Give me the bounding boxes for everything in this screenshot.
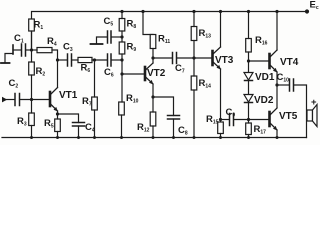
resistor R17 xyxy=(246,123,266,136)
wire R10 leads xyxy=(121,74,123,102)
wire R11 to collector node xyxy=(152,49,154,59)
svg-text:VT4: VT4 xyxy=(280,57,299,68)
wire C2 to node B to VT1 base xyxy=(20,99,50,101)
capacitor C9 xyxy=(226,107,236,126)
svg-text:VT1: VT1 xyxy=(59,90,78,101)
wire VD1 to VD2 xyxy=(248,81,250,95)
wire base branch to VT4 xyxy=(249,60,270,62)
svg-text:R13: R13 xyxy=(199,28,212,40)
svg-text:+: + xyxy=(311,97,317,108)
node R7 junction xyxy=(93,58,96,61)
svg-text:R4: R4 xyxy=(47,36,57,48)
node VT4 base junction xyxy=(247,59,250,62)
transistor VT3 xyxy=(213,47,234,70)
wire arrow to C2 xyxy=(6,99,15,101)
wire node A to R2 to node B xyxy=(31,50,33,62)
transistor VT2 xyxy=(145,63,166,85)
resistor R15 xyxy=(206,114,223,134)
svg-text:R12: R12 xyxy=(137,122,150,134)
svg-text:C9: C9 xyxy=(226,107,236,119)
capacitor C1 xyxy=(14,33,26,56)
resistor R9 xyxy=(119,42,136,55)
wire R9 to row C xyxy=(121,54,123,74)
svg-text:VT2: VT2 xyxy=(147,68,166,79)
wire C5 to ground xyxy=(112,36,123,38)
node input arrow row2 xyxy=(2,97,7,103)
svg-text:VD1: VD1 xyxy=(255,72,275,83)
wire VT4 collector to rail xyxy=(276,12,278,51)
svg-text:R5: R5 xyxy=(44,118,54,130)
svg-text:R11: R11 xyxy=(158,34,170,46)
resistor R5 xyxy=(44,118,60,132)
node output junction xyxy=(275,83,278,86)
node rail R13 xyxy=(192,10,195,13)
svg-text:Ec: Ec xyxy=(310,0,319,11)
wire R1 leads xyxy=(31,31,33,50)
capacitor C10 xyxy=(277,72,294,91)
resistor R12 xyxy=(137,112,156,134)
svg-text:R14: R14 xyxy=(199,78,212,90)
wire rail to R16 xyxy=(248,12,250,39)
node rail R8 xyxy=(120,10,123,13)
speaker BL xyxy=(307,97,317,127)
resistor R6 xyxy=(78,57,92,74)
wire VT3 collector to rail xyxy=(220,12,222,48)
resistor R2 xyxy=(29,62,46,78)
wire bottom ground rail xyxy=(2,137,307,139)
capacitor C2 xyxy=(9,78,20,106)
node VT5 base junction xyxy=(247,118,250,121)
wire base node to VT5 xyxy=(249,119,270,121)
transistor VT4 xyxy=(270,50,299,73)
resistor R7 xyxy=(82,96,97,110)
wire VT1 emitter down xyxy=(57,111,59,114)
wire VT2 collector up xyxy=(152,58,154,63)
svg-text:C8: C8 xyxy=(178,125,188,137)
wire R16 to VT4 base node xyxy=(248,52,250,73)
svg-text:R7: R7 xyxy=(82,96,92,108)
wire R7 leads xyxy=(94,60,96,97)
wire top supply rail xyxy=(32,12,308,51)
node VT3 base junction xyxy=(192,56,195,59)
wire C3 to R6 xyxy=(72,59,78,61)
resistor R10 xyxy=(119,93,139,115)
svg-text:C10: C10 xyxy=(277,72,290,84)
svg-text:C2: C2 xyxy=(9,78,19,90)
svg-text:C6: C6 xyxy=(104,67,114,79)
svg-text:R9: R9 xyxy=(127,42,137,54)
wire VT4 emitter to VT5 collector xyxy=(276,72,278,108)
resistor R16 xyxy=(246,35,268,52)
wire output to C10 xyxy=(277,84,289,86)
svg-text:VT5: VT5 xyxy=(279,111,298,122)
svg-text:C7: C7 xyxy=(175,63,185,75)
node VT2 collector junction xyxy=(151,56,154,59)
wire emitter node to C9 xyxy=(221,119,230,121)
node E+ terminal xyxy=(305,9,309,13)
node VT3 emitter junction xyxy=(219,118,222,121)
wire R14 leads xyxy=(193,58,195,76)
capacitor C6 xyxy=(104,54,114,79)
wire VT3 emitter down xyxy=(220,69,222,122)
resistor R1 xyxy=(29,19,44,31)
wire VT5 emitter to rail xyxy=(276,130,278,138)
node C6 junction xyxy=(120,58,123,61)
svg-text:R2: R2 xyxy=(36,66,46,78)
resistor R13 xyxy=(191,27,211,41)
wire C6 to column xyxy=(112,59,123,61)
svg-text:R15: R15 xyxy=(206,114,219,126)
svg-text:VT3: VT3 xyxy=(215,55,234,66)
svg-text:C3: C3 xyxy=(63,42,73,54)
wire base node to VT3 xyxy=(194,57,213,59)
resistor R8 xyxy=(119,19,136,32)
ground C5 xyxy=(91,43,103,45)
svg-text:R1: R1 xyxy=(34,20,44,32)
wire R15 to rail xyxy=(220,134,222,138)
node input terminal bar xyxy=(12,45,14,54)
svg-text:C5: C5 xyxy=(104,16,114,28)
svg-text:R10: R10 xyxy=(126,93,139,105)
capacitor C5 xyxy=(104,16,114,43)
node VT2 emitter junction xyxy=(151,95,154,98)
resistor R11 xyxy=(143,12,170,49)
wire C9 to VD column xyxy=(234,119,249,121)
wire rail to R13 to base node xyxy=(193,12,195,27)
diode VD2 xyxy=(244,95,274,107)
svg-text:VD2: VD2 xyxy=(254,95,274,106)
wire C7 to VT3 base node xyxy=(177,57,194,59)
svg-text:R8: R8 xyxy=(127,19,137,31)
wire C1 to node A xyxy=(26,49,32,51)
capacitor C3 xyxy=(63,42,73,67)
node A junction xyxy=(30,48,33,51)
wire to C1 xyxy=(13,49,21,51)
svg-text:C1: C1 xyxy=(14,33,24,45)
diode VD1 xyxy=(244,72,275,83)
wire C10 to speaker xyxy=(294,85,307,138)
resistor R14 xyxy=(191,76,211,90)
transistor VT1 xyxy=(50,88,78,112)
wire R17 leads xyxy=(248,120,250,124)
node rail R16 xyxy=(247,10,250,13)
node B junction xyxy=(30,98,33,101)
wire R8 to C5 node xyxy=(121,31,123,42)
resistor R4 xyxy=(37,36,57,53)
wire R6 to C6 xyxy=(92,59,107,61)
wire collector node to C7 xyxy=(153,57,172,59)
capacitor C7 xyxy=(173,53,185,75)
wire VT2 emitter down xyxy=(152,84,154,97)
svg-text:R16: R16 xyxy=(255,35,268,47)
capacitor C4 xyxy=(58,114,95,138)
wire VD2 to VT5 base node xyxy=(248,103,250,120)
node VT1 collector branch xyxy=(56,58,59,61)
resistor R3 xyxy=(17,113,34,128)
wire R12 leads xyxy=(152,97,154,112)
wire to C3 xyxy=(58,59,68,61)
wire R3 leads xyxy=(31,100,33,114)
capacitor C8 xyxy=(153,97,188,138)
svg-text:C4: C4 xyxy=(85,122,95,134)
node rail R11 xyxy=(141,10,144,13)
svg-text:R17: R17 xyxy=(254,124,267,136)
wire R4 leads xyxy=(32,49,38,51)
svg-text:R3: R3 xyxy=(17,116,27,128)
svg-text:R6: R6 xyxy=(81,63,91,75)
wire input row1 xyxy=(5,54,13,63)
wire rail to R8 xyxy=(121,12,123,19)
ground input row1 xyxy=(1,62,10,64)
node C5 junction xyxy=(120,35,123,38)
transistor VT5 xyxy=(270,108,298,131)
wire R5 leads xyxy=(57,114,59,119)
wire base branch to VT2 xyxy=(122,73,145,75)
node VT2 base junction xyxy=(120,72,123,75)
node VT1 emitter junction xyxy=(56,112,59,115)
